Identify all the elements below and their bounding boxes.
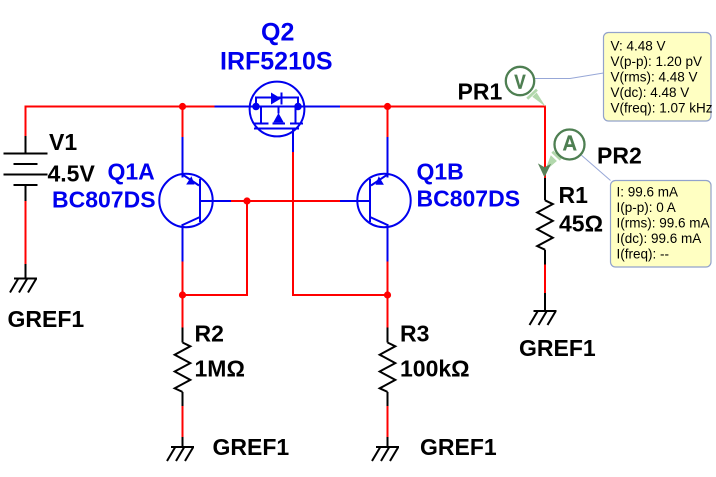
mosfet Q2 substrate arrow — [273, 113, 283, 122]
svg-text:V(freq): 1.07 kHz: V(freq): 1.07 kHz — [611, 101, 713, 116]
ground GREF1 (V1) — [10, 264, 37, 293]
svg-text:BC807DS: BC807DS — [417, 186, 521, 212]
probe PR2 circle A — [555, 130, 585, 160]
svg-text:R3: R3 — [400, 321, 429, 347]
wire base junction down-left to R2 node — [183, 201, 248, 295]
transistor Q1A emitter arrow — [186, 176, 194, 184]
svg-text:Q1B: Q1B — [417, 159, 464, 185]
svg-text:I: 99.6 mA: I: 99.6 mA — [617, 185, 679, 200]
svg-text:GREF1: GREF1 — [420, 434, 497, 460]
wire Q2 gate down to R3 node — [293, 152, 388, 295]
junction node (Q1B collector / R3) — [384, 291, 391, 298]
svg-text:Q2: Q2 — [261, 19, 294, 47]
svg-text:GREF1: GREF1 — [213, 434, 290, 460]
svg-text:BC807DS: BC807DS — [52, 187, 156, 213]
svg-text:Q1A: Q1A — [108, 159, 155, 185]
probe PR1 arrow fletch — [526, 89, 538, 100]
svg-text:45Ω: 45Ω — [559, 211, 603, 237]
svg-text:V(p-p): 1.20 pV: V(p-p): 1.20 pV — [611, 54, 703, 69]
wire Q1B collector down — [387, 262, 389, 328]
svg-text:I(p-p): 0 A: I(p-p): 0 A — [617, 200, 676, 215]
probe PR2 arrow fletch — [551, 151, 561, 161]
battery V1 — [4, 136, 48, 201]
svg-text:GREF1: GREF1 — [8, 306, 85, 332]
mosfet Q2 — [215, 82, 341, 152]
svg-text:100kΩ: 100kΩ — [400, 356, 470, 382]
junction node (Q1B emitter / top rail) — [384, 103, 391, 110]
mosfet Q2 body diode — [271, 93, 281, 105]
wire base rail Q1A to Q1B — [231, 200, 340, 202]
junction node (Q2 drain pin) — [294, 103, 302, 111]
wire Q1B emitter up — [387, 107, 389, 138]
svg-text:I(rms): 99.6 mA: I(rms): 99.6 mA — [617, 216, 710, 231]
wire top rail right (Q2 to R1 corner) — [340, 107, 545, 179]
probe PR1 leader line — [534, 73, 604, 79]
wire V1 minus to ground — [25, 200, 27, 264]
transistor Q1A — [159, 137, 231, 262]
junction node (base rail) — [243, 197, 250, 204]
wire R2 bottom to ground — [182, 406, 184, 437]
wire Q1A collector down — [182, 262, 184, 328]
transistor Q1B emitter arrow — [376, 176, 384, 184]
svg-text:IRF5210S: IRF5210S — [220, 48, 333, 76]
probe PR2 arrow needle — [545, 155, 557, 171]
resistor R3 — [380, 328, 396, 407]
wire R3 bottom to ground — [387, 406, 389, 437]
resistor R1 — [537, 178, 553, 265]
svg-text:V1: V1 — [49, 129, 77, 155]
svg-text:PR1: PR1 — [458, 79, 503, 105]
probe PR1 circle V — [506, 67, 534, 95]
junction node (Q1A collector / R2) — [179, 291, 186, 298]
probe PR2 arrowhead — [538, 163, 551, 177]
svg-text:R2: R2 — [195, 321, 224, 347]
svg-text:R1: R1 — [559, 182, 589, 208]
svg-text:V(dc): 4.48 V: V(dc): 4.48 V — [611, 85, 690, 100]
svg-text:V(rms): 4.48 V: V(rms): 4.48 V — [611, 70, 698, 85]
svg-text:4.5V: 4.5V — [48, 161, 96, 187]
wire Q1A emitter up — [182, 107, 184, 138]
wire top rail left (V1 to Q2) — [26, 107, 215, 137]
svg-text:PR2: PR2 — [597, 143, 642, 169]
junction node (Q2 source pin) — [252, 103, 260, 111]
probe PR1 arrow needle — [532, 93, 545, 107]
svg-text:GREF1: GREF1 — [519, 335, 596, 361]
ground GREF1 (R3) — [372, 437, 399, 461]
wire R1 bottom to ground — [544, 265, 546, 296]
resistor R2 — [175, 328, 191, 407]
transistor Q1B — [340, 137, 411, 262]
callout box PR2 measurements — [611, 181, 712, 268]
ground GREF1 (R1) — [530, 293, 557, 325]
callout box PR1 measurements — [604, 33, 712, 122]
junction node (Q1A emitter / top rail) — [179, 103, 186, 110]
svg-text:I(freq): --: I(freq): -- — [617, 247, 670, 262]
ground GREF1 (R2) — [167, 437, 194, 461]
svg-text:V: 4.48 V: V: 4.48 V — [611, 39, 666, 54]
svg-text:1MΩ: 1MΩ — [195, 356, 245, 382]
probe PR2 leader line — [582, 155, 611, 180]
svg-text:I(dc): 99.6 mA: I(dc): 99.6 mA — [617, 231, 702, 246]
